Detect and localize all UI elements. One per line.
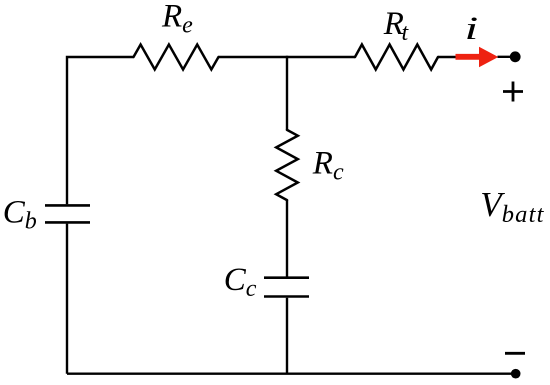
wire bottom [67, 373, 516, 375]
wire top-left horizontal with left corner [67, 57, 134, 204]
current arrow i (red) [456, 47, 499, 68]
node junction top-middle [286, 56, 288, 130]
wire top-middle segment [219, 56, 356, 58]
svg-text:Cb: Cb [3, 195, 37, 235]
wire to positive terminal [498, 56, 516, 58]
svg-text:i: i [465, 11, 479, 47]
capacitor C_c [264, 278, 309, 297]
svg-text:Rt: Rt [383, 6, 410, 46]
resistor R_c [276, 130, 298, 200]
svg-text:Rc: Rc [312, 146, 344, 186]
resistor R_t [355, 45, 438, 70]
wire middle between R_c and C_c [286, 200, 288, 276]
svg-text:Cc: Cc [224, 262, 257, 302]
svg-text:Vbatt: Vbatt [480, 185, 544, 228]
wire left lower [66, 224, 68, 374]
capacitor C_b [45, 205, 90, 222]
minus sign [505, 352, 525, 355]
resistor R_e [134, 45, 219, 70]
svg-text:Re: Re [161, 0, 193, 39]
node negative terminal dot [511, 369, 521, 379]
wire middle lower [286, 298, 288, 374]
wire after R_t [438, 56, 456, 58]
plus sign [503, 82, 523, 102]
node positive terminal dot [510, 51, 521, 62]
